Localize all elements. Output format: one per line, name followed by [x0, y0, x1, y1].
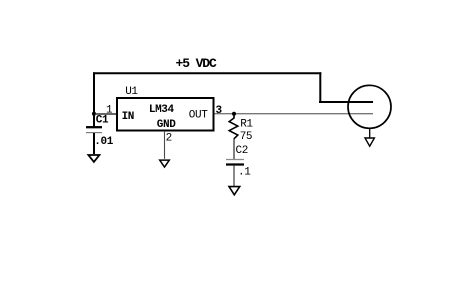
svg-text:75: 75 — [240, 131, 252, 143]
label LM34 — [149, 104, 175, 116]
ground below C1 — [88, 155, 99, 162]
svg-text:3: 3 — [216, 105, 223, 117]
label GND — [157, 119, 176, 131]
ground below U1 GND pin — [160, 160, 170, 167]
svg-text:LM34: LM34 — [149, 104, 175, 116]
wire: horizontal into connector circle (tip) — [319, 101, 373, 103]
capacitor C2 bottom plate — [226, 163, 244, 165]
ground below C2 — [229, 187, 240, 195]
value .01 — [94, 136, 113, 148]
label C1 — [96, 115, 109, 127]
label OUT — [189, 109, 208, 121]
svg-text:IN: IN — [122, 111, 134, 123]
svg-text:GND: GND — [157, 119, 176, 131]
pin number 3 — [216, 105, 223, 117]
ground below connector — [365, 138, 374, 146]
wire: C1 bottom plate to ground — [93, 133, 95, 154]
resistor R1 zigzag — [229, 116, 238, 139]
svg-text:C2: C2 — [236, 145, 248, 157]
node: junction at R1 top — [232, 112, 236, 116]
svg-text:C1: C1 — [96, 115, 109, 127]
capacitor C1 bottom plate — [86, 132, 102, 134]
value .1 — [238, 166, 251, 178]
svg-text:.1: .1 — [238, 166, 251, 178]
wire: R1 bottom to C2 top plate — [233, 139, 235, 160]
capacitor C1 top plate — [86, 126, 102, 128]
wire: connector ground stem — [369, 128, 371, 138]
wire: C2 bottom plate to ground — [233, 165, 235, 186]
op-amp U1 box (LM34) — [117, 98, 214, 131]
pin number 1 — [106, 104, 113, 116]
wire: node to IN pin of U1 — [95, 113, 117, 115]
label U1 — [125, 86, 138, 98]
svg-text:U1: U1 — [125, 86, 138, 98]
wire: left vertical from rail down to C1/IN node — [93, 72, 95, 127]
wire: right vertical from rail down — [319, 72, 321, 103]
capacitor C2 top plate — [226, 159, 244, 161]
wire: OUT pin to junction to connector circle — [215, 113, 374, 115]
connector circle (probe jack) — [348, 85, 391, 128]
value 75 — [240, 131, 252, 143]
label C2 — [236, 145, 248, 157]
label R1 — [240, 118, 253, 130]
svg-text:2: 2 — [166, 133, 172, 145]
label +5 VDC — [176, 56, 218, 71]
pin wire: GND pin 2 of U1 — [164, 131, 166, 159]
label IN — [122, 111, 134, 123]
svg-text:R1: R1 — [240, 118, 253, 130]
pin number 2 — [166, 133, 172, 145]
wire: +5V top rail horizontal — [93, 72, 321, 74]
svg-text:+5 VDC: +5 VDC — [176, 56, 218, 71]
svg-text:.01: .01 — [94, 136, 113, 148]
svg-text:OUT: OUT — [189, 109, 208, 121]
node: junction at C1 / IN pin — [92, 112, 96, 116]
